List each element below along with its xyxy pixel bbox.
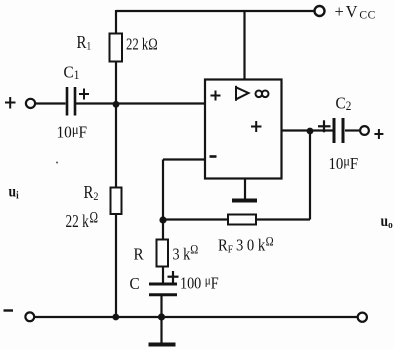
wire output junction down (309, 131, 311, 220)
node C-bottom junction dot (158, 313, 165, 320)
wire R1 top (115, 10, 117, 34)
capacitor C plates (149, 284, 177, 295)
svg-text:+VCC: +VCC (335, 2, 376, 22)
capacitor C1 plates (67, 87, 75, 116)
wire R bottom to C (162, 267, 164, 284)
svg-text:3 kΩ: 3 kΩ (173, 243, 199, 264)
plus sign after output terminal (374, 129, 383, 139)
terminal input circle (26, 99, 35, 108)
wire R top (162, 220, 164, 240)
wire op-amp output (282, 129, 333, 131)
wire op-amp ground stub (244, 179, 246, 200)
input plus sign (5, 97, 16, 109)
svg-text:uo: uo (381, 213, 393, 231)
wire op-amp minus input vertical (162, 160, 164, 221)
svg-text:R: R (134, 246, 144, 264)
op-amp minus input sign (210, 155, 217, 158)
terminal bottom-left circle (25, 312, 34, 321)
node feedback junction dot (159, 216, 166, 223)
svg-text:22 kΩ: 22 kΩ (126, 36, 158, 54)
stray mark (56, 162, 58, 164)
wire top rail (116, 10, 314, 12)
wire R2 top (115, 104, 117, 188)
capacitor C2 plates (334, 118, 343, 143)
resistor R (157, 240, 169, 267)
resistor R1 (110, 34, 123, 62)
op-amp output plus sign (251, 121, 262, 132)
wire Vcc drop to op-amp (243, 11, 245, 80)
terminal output circle (360, 126, 369, 135)
ground (bottom) (149, 343, 176, 347)
wire R2 bottom (115, 214, 117, 317)
svg-text:C: C (130, 275, 140, 293)
op-amp infinity gain label (255, 91, 268, 98)
svg-text:C2: C2 (336, 95, 352, 113)
input minus sign (4, 309, 14, 311)
wire node A to op-amp plus input (116, 102, 205, 104)
resistor R2 (111, 188, 122, 215)
wire bottom rail (35, 316, 358, 318)
svg-text:22 kΩ: 22 kΩ (66, 209, 99, 232)
op-amp triangle (236, 86, 249, 101)
plus sign at C1 (79, 89, 89, 100)
svg-text:10μF: 10μF (57, 122, 88, 142)
node A junction dot (113, 101, 120, 108)
wire C2 to output terminal (345, 129, 360, 131)
wire RF right (256, 218, 310, 220)
terminal bottom-right circle (358, 313, 367, 322)
wire bottom ground stub (160, 317, 162, 343)
node output junction dot (307, 128, 314, 135)
wire R1 bottom (115, 61, 117, 104)
terminal Vcc circle (315, 6, 325, 16)
svg-text:R1: R1 (77, 33, 92, 53)
plus sign at C (168, 271, 179, 283)
svg-text:100 μF: 100 μF (180, 273, 219, 293)
wire input to C1 (36, 102, 66, 104)
op-amp plus input sign (211, 91, 221, 101)
op-amp U1 box (205, 80, 282, 179)
plus sign before C2 (318, 120, 331, 132)
svg-text:RF 3 0 kΩ: RF 3 0 kΩ (218, 235, 274, 256)
svg-text:C1: C1 (64, 64, 80, 82)
wire op-amp minus input horizontal (163, 158, 205, 160)
wire RF left (163, 218, 228, 220)
svg-text:ui: ui (9, 184, 19, 202)
resistor RF (228, 215, 256, 225)
wire C1 to node A (76, 102, 117, 104)
ground (op-amp) (232, 199, 257, 203)
svg-text:10μF: 10μF (329, 154, 359, 173)
node R2-bottom junction dot (112, 314, 119, 321)
svg-text:R2: R2 (84, 183, 99, 203)
wire C bottom to rail (160, 296, 162, 317)
